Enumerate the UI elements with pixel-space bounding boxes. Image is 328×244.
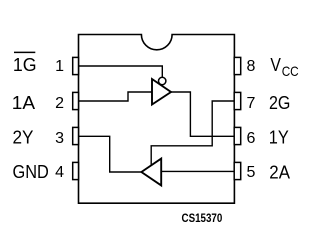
svg-text:1A: 1A <box>12 93 35 113</box>
svg-text:2A: 2A <box>269 162 290 182</box>
svg-text:1G: 1G <box>13 55 37 75</box>
svg-text:CS15370: CS15370 <box>182 211 223 225</box>
svg-text:8: 8 <box>247 58 256 75</box>
svg-text:2Y: 2Y <box>13 127 34 147</box>
svg-text:1Y: 1Y <box>269 128 289 148</box>
svg-text:3: 3 <box>55 130 64 147</box>
svg-text:4: 4 <box>55 164 64 181</box>
svg-text:V: V <box>270 55 281 75</box>
svg-text:7: 7 <box>247 95 256 112</box>
svg-text:6: 6 <box>247 130 256 147</box>
svg-text:CC: CC <box>282 63 299 79</box>
svg-text:2: 2 <box>55 95 64 112</box>
svg-text:1: 1 <box>55 58 64 75</box>
svg-text:5: 5 <box>247 164 256 181</box>
svg-text:GND: GND <box>13 162 49 182</box>
svg-text:2G: 2G <box>269 93 290 113</box>
